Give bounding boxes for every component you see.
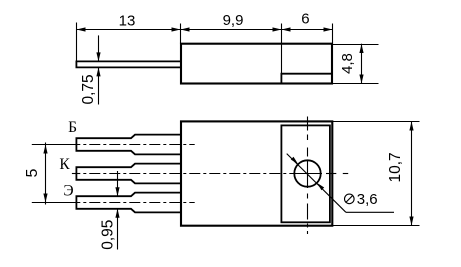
label B <box>68 119 77 136</box>
leader arrow lower right of circle <box>317 183 324 190</box>
svg-text:0,95: 0,95 <box>99 220 116 250</box>
svg-text:Б: Б <box>68 119 77 136</box>
top view mounting boss step <box>281 74 332 83</box>
arrow right of 9,9 <box>273 27 282 31</box>
dimension extension line at body right edge <box>332 24 334 44</box>
svg-text:9,9: 9,9 <box>223 12 244 29</box>
arrow left of 6 <box>282 27 291 31</box>
arrow right of 13 <box>172 27 181 31</box>
top dimension line <box>77 29 333 31</box>
dimension 0,75 upper arrow line <box>96 35 100 61</box>
dimension 0,95 upper arrow line <box>115 171 119 196</box>
arrow left of 13 <box>77 27 86 31</box>
top view body outline <box>181 44 332 84</box>
dimension 5 line with arrows <box>43 143 47 205</box>
dimension text 0,95 <box>99 220 116 250</box>
arrow right of 6 <box>324 27 333 31</box>
dimension 10,7 top extension line <box>332 121 420 123</box>
dimension text 9,9 <box>223 12 244 29</box>
front view body outline <box>181 121 332 225</box>
dimension text 0,75 <box>80 74 97 104</box>
dimension text 5 <box>24 169 41 178</box>
dimension text 3,6 <box>357 191 378 208</box>
top view lead strip <box>76 61 181 67</box>
lead K (collector) <box>76 164 181 184</box>
hole diameter leader line <box>287 154 394 213</box>
svg-text:3,6: 3,6 <box>357 191 378 208</box>
svg-text:13: 13 <box>119 12 136 29</box>
dimension 10,7 bottom extension line <box>332 225 420 227</box>
svg-text:4,8: 4,8 <box>339 53 356 74</box>
center line lead E <box>32 202 195 204</box>
svg-text:0,75: 0,75 <box>80 74 97 104</box>
front view boss rectangle <box>281 125 330 222</box>
leader arrow upper left of circle <box>291 157 298 164</box>
dimension 13 extension line left <box>76 23 78 62</box>
diameter symbol <box>345 194 355 204</box>
svg-text:5: 5 <box>24 169 41 178</box>
dimension 4,8 bottom extension line <box>332 83 379 85</box>
arrow left of 9,9 <box>181 27 190 31</box>
dimension text 4,8 <box>339 53 356 74</box>
svg-text:6: 6 <box>301 11 309 28</box>
dimension text 10,7 <box>387 152 404 182</box>
svg-text:10,7: 10,7 <box>387 152 404 182</box>
center line lead B <box>32 144 195 146</box>
dimension 4,8 line with arrows <box>359 44 363 84</box>
dimension text 13 <box>119 12 136 29</box>
dimension 10,7 line with arrows <box>409 122 413 226</box>
vertical center line of hole <box>307 117 309 235</box>
dimension 4,8 top extension line <box>332 44 379 46</box>
main center line through lead K <box>72 173 348 175</box>
mounting hole circle <box>294 160 320 186</box>
label E <box>63 183 73 200</box>
lead E (emitter) <box>76 193 181 213</box>
svg-text:К: К <box>59 156 70 173</box>
dimension text 6 <box>301 11 309 28</box>
svg-text:Э: Э <box>63 183 73 200</box>
dimension extension line at boss left edge <box>281 24 283 74</box>
label K <box>59 156 70 173</box>
dimension extension line at body left edge <box>180 24 182 44</box>
lead B (base) <box>76 135 181 155</box>
dimension 0,95 lower arrow line <box>115 209 119 250</box>
dimension 0,75 lower arrow line <box>96 67 100 104</box>
